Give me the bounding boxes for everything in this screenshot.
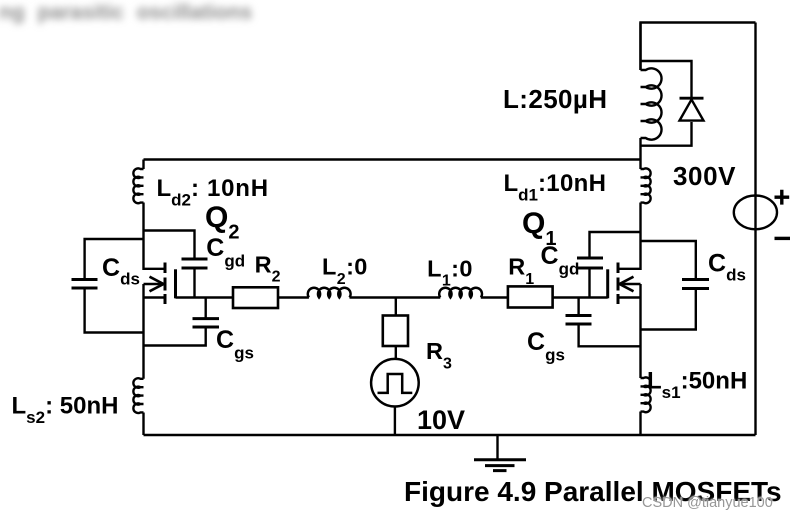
svg-text:Cgs: Cgs: [216, 326, 254, 363]
minus terminal of V1: [775, 237, 791, 240]
svg-text:Cgs: Cgs: [527, 328, 565, 365]
wire: R1 to Q1 gate: [553, 296, 608, 298]
transistor Q2 source stub: [144, 296, 166, 298]
wire: right rail lower segments: [639, 284, 641, 435]
wire: Q2 gate wire to R2: [176, 296, 234, 298]
svg-text:Ld1:10nH: Ld1:10nH: [504, 170, 607, 205]
wire: R3 junction stem: [395, 298, 397, 316]
svg-text:L1:0: L1:0: [427, 256, 473, 290]
svg-text:Ls2: 50nH: Ls2: 50nH: [12, 393, 119, 428]
svg-text:L2:0: L2:0: [322, 254, 368, 289]
transistor Q2 body arrow: [144, 277, 164, 292]
svg-text:Cgd: Cgd: [541, 242, 580, 279]
voltage source V1 300V: [734, 196, 777, 230]
inductor Ld2 10nH (coil on left rail): [133, 168, 143, 203]
wire: Q2 Cds branch: [85, 239, 144, 333]
svg-text:L:250µH: L:250µH: [503, 84, 607, 114]
transistor Q1 drain stub: [618, 268, 641, 270]
transistor Q1 gate bar: [606, 269, 609, 298]
wire: pulse source to bottom rail: [394, 407, 396, 436]
svg-text:300V: 300V: [673, 161, 736, 191]
wire: R2 to L2: [278, 296, 309, 298]
wire: L1 to R1: [481, 296, 508, 298]
watermark CSDN bottom-right: [642, 495, 773, 511]
blurred watermark text top-left: [0, 1, 252, 25]
wire: freewheel diode branch: [641, 61, 692, 146]
pulse voltage source V2: [371, 359, 419, 407]
wire: Cgd bottom to gate wire: [193, 268, 195, 298]
inductor Ls2 50nH (coil on left rail): [133, 378, 143, 413]
wire: right rail upper segments: [639, 23, 641, 271]
capacitor Cgs of Q1: [566, 316, 592, 325]
resistor R3: [383, 316, 408, 347]
transistor Q1 channel bar: [617, 263, 620, 305]
wire: Q1 Cgs connector: [579, 298, 641, 347]
wire: Q1 Cgd bottom to gate wire: [588, 268, 590, 298]
inductor L 250uH (coil on right rail): [641, 68, 662, 139]
diode D1: [680, 98, 704, 120]
svg-text:R2: R2: [255, 251, 281, 285]
wire: Q1 drain branch to Cgd: [590, 232, 641, 258]
transistor Q2 gate bar: [174, 269, 177, 298]
inductor Ls1 50nH (coil on right rail): [641, 377, 651, 412]
wire: left rail upper segments: [142, 160, 144, 271]
svg-text:R3: R3: [426, 338, 452, 373]
wire: bottom rail: [144, 434, 756, 436]
transistor Q1 source stub: [618, 296, 641, 298]
wire: L2 to L1 through junction: [350, 296, 441, 298]
capacitor Cgd of Q1: [577, 258, 603, 268]
wire: Q1 Cds branch: [641, 241, 696, 330]
inductor Ld1 10nH (coil on right rail): [641, 168, 651, 203]
transistor Q2 channel bar: [164, 263, 167, 305]
resistor R1: [508, 286, 553, 307]
wire: top loop (300V branch top): [641, 23, 756, 71]
svg-text:R1: R1: [508, 254, 534, 289]
capacitor Cds of Q2: [72, 280, 98, 289]
inductor L2: [308, 288, 351, 298]
resistor R2: [233, 287, 278, 308]
inductor L1: [439, 288, 482, 298]
wire: Q2 Cgs connector: [144, 298, 206, 346]
ground: [474, 435, 526, 471]
transistor Q2 drain stub: [144, 268, 166, 270]
wire: Q2 drain branch to Cgd: [144, 231, 195, 260]
svg-text:10V: 10V: [417, 405, 465, 435]
wire: left rail lower segments: [142, 284, 144, 435]
capacitor Cgd of Q2: [182, 259, 208, 268]
svg-text:Ls1:50nH: Ls1:50nH: [647, 368, 747, 403]
plus terminal of V1: [775, 190, 790, 205]
capacitor Cgs of Q2: [193, 319, 220, 327]
wire: far right rail below source: [754, 23, 756, 436]
wire: top main wire: [144, 158, 641, 160]
transistor Q1 body arrow: [620, 277, 641, 292]
capacitor Cds of Q1: [682, 280, 709, 289]
svg-text:Cds: Cds: [708, 250, 746, 285]
wire: R3 to pulse source: [395, 346, 397, 359]
svg-text:Cds: Cds: [102, 254, 140, 289]
